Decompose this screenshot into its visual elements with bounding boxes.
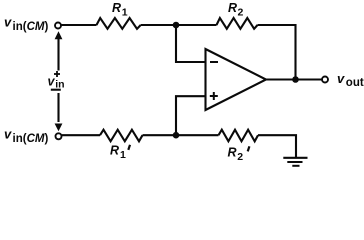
terminal top-left [55, 23, 61, 29]
svg-text:2: 2 [238, 7, 244, 19]
op-amp minus sign [210, 61, 218, 63]
wire node A down to inverting input [176, 25, 206, 62]
svg-text:2: 2 [237, 151, 243, 163]
node A junction dot [173, 22, 180, 29]
terminal bottom-left [56, 133, 62, 139]
output node junction dot [292, 76, 299, 83]
source vin plus sign [54, 73, 60, 75]
resistor R2 [217, 18, 258, 29]
resistor R1 [97, 18, 141, 29]
wire top-left to R1 [61, 24, 96, 26]
svg-text:R: R [228, 146, 237, 160]
wire R2' to ground [258, 135, 296, 157]
source vin down arrow [57, 93, 59, 122]
terminal vout [322, 77, 328, 83]
svg-text:out: out [346, 77, 364, 89]
svg-text:v: v [4, 127, 12, 142]
svg-text:R: R [110, 144, 119, 158]
wire node B up to non-inverting input [176, 96, 206, 135]
svg-text:in: in [55, 78, 64, 90]
wire op-amp output to terminal [266, 78, 322, 80]
wire R1' to node B and on to R2' [143, 134, 219, 136]
svg-text:in(CM): in(CM) [13, 133, 49, 145]
wire R2 to right and down to output node [258, 25, 296, 80]
svg-text:R: R [228, 1, 237, 15]
svg-text:1: 1 [120, 149, 126, 161]
svg-text:in(CM): in(CM) [13, 21, 49, 33]
wire R1 to node A and on to R2 [141, 24, 217, 26]
source vin minus sign [51, 89, 61, 91]
svg-text:R: R [112, 1, 121, 15]
ground [283, 157, 307, 159]
op-amp plus sign [210, 95, 218, 97]
resistor R1' [100, 130, 143, 142]
op-amp U1 [206, 49, 267, 110]
source vin up arrow [57, 38, 59, 71]
node B junction dot [173, 132, 180, 139]
resistor R2' [219, 130, 259, 142]
svg-text:v: v [4, 15, 12, 30]
svg-text:v: v [337, 71, 345, 86]
svg-text:1: 1 [122, 6, 128, 18]
wire bottom-left to R1' [62, 134, 100, 136]
